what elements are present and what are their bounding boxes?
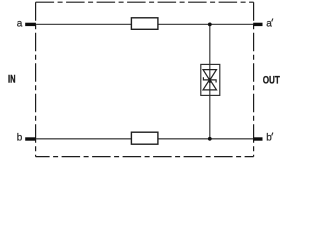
wire a to a' (top conductor) xyxy=(28,23,254,25)
terminal a (thick stub) xyxy=(25,23,36,26)
suppressor U1 top diode triangle xyxy=(203,70,217,81)
node junction dot top xyxy=(208,23,212,27)
svg-text:a: a xyxy=(266,18,272,29)
suppressor U1 box outline xyxy=(201,64,220,95)
terminal a' (thick stub) xyxy=(253,23,262,26)
resistor R1 (top series decoupling resistor) xyxy=(131,18,158,30)
svg-text:IN: IN xyxy=(8,74,16,86)
svg-text:a: a xyxy=(17,18,23,29)
wire vertical shunt branch xyxy=(209,24,211,138)
terminal b' (thick stub) xyxy=(253,137,262,140)
svg-text:OUT: OUT xyxy=(263,75,281,87)
suppressor U1 bottom diode triangle xyxy=(203,79,217,90)
node junction dot bottom xyxy=(208,137,212,141)
resistor R2 (bottom series decoupling resistor) xyxy=(131,132,158,144)
svg-text:b: b xyxy=(266,133,272,144)
enclosure dashed border (dash-dot box) xyxy=(36,2,254,156)
suppressor U1 center junction knot xyxy=(209,78,211,83)
terminal b (thick stub) xyxy=(25,137,36,140)
suppressor U1 zener center bar with hooks xyxy=(203,77,216,82)
wire b to b' (bottom conductor) xyxy=(28,138,254,140)
svg-text:b: b xyxy=(17,133,23,144)
